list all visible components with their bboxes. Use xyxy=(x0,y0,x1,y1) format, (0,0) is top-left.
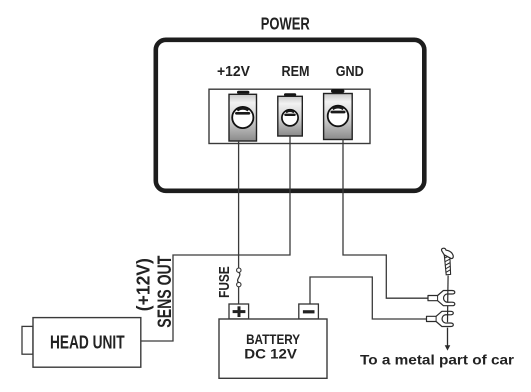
arrow to chassis xyxy=(445,328,451,351)
spade terminal 1 xyxy=(428,291,455,306)
power amplifier panel box xyxy=(156,40,425,191)
fuse F1 xyxy=(237,268,241,287)
ground axis line xyxy=(447,276,449,303)
label (+12V) SENS OUT xyxy=(132,256,175,328)
ground axis line segment 2 xyxy=(447,306,449,323)
svg-text:REM: REM xyxy=(282,64,310,80)
head unit xyxy=(22,318,141,368)
battery positive terminal xyxy=(229,304,249,319)
svg-text:BATTERY: BATTERY xyxy=(246,332,300,347)
svg-text:SENS OUT: SENS OUT xyxy=(154,256,176,328)
wire GND terminal to spade terminal 1 xyxy=(343,140,428,299)
battery negative terminal xyxy=(299,304,319,319)
battery BT1 xyxy=(219,319,327,378)
svg-text:GND: GND xyxy=(336,64,364,80)
svg-text:To a metal part of car: To a metal part of car xyxy=(360,353,515,369)
screw terminal GND xyxy=(324,89,353,140)
spade terminal 2 xyxy=(427,311,454,326)
terminal block xyxy=(209,89,370,143)
svg-text:POWER: POWER xyxy=(261,14,310,34)
screw terminal REM xyxy=(278,93,303,136)
svg-text:HEAD UNIT: HEAD UNIT xyxy=(50,332,125,353)
wire +12V terminal to fuse xyxy=(238,141,240,268)
wire battery minus to spade terminal 2 xyxy=(310,277,427,319)
wire REM terminal to head unit xyxy=(141,136,290,341)
svg-text:+12V: +12V xyxy=(217,64,250,80)
screw terminal +12V xyxy=(229,91,257,141)
svg-text:(+12V): (+12V) xyxy=(132,258,153,311)
ground screw xyxy=(442,248,454,275)
svg-text:DC 12V: DC 12V xyxy=(244,346,297,361)
svg-text:FUSE: FUSE xyxy=(217,266,233,298)
wire fuse to battery plus xyxy=(238,287,240,304)
